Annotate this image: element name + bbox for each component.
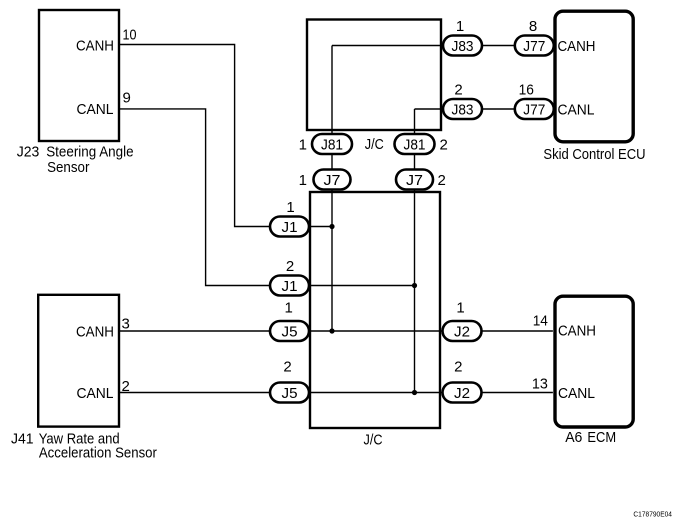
svg-text:8: 8 xyxy=(529,18,537,35)
svg-text:2: 2 xyxy=(438,172,446,189)
svg-text:J2: J2 xyxy=(454,385,470,402)
svg-text:CANL: CANL xyxy=(558,101,595,118)
svg-text:14: 14 xyxy=(533,313,548,330)
svg-text:A6: A6 xyxy=(565,429,582,446)
svg-text:J81: J81 xyxy=(321,136,343,153)
svg-text:1: 1 xyxy=(299,136,307,153)
svg-text:CANH: CANH xyxy=(558,38,596,55)
svg-text:J7: J7 xyxy=(406,172,423,189)
svg-text:J81: J81 xyxy=(404,136,426,153)
svg-text:Acceleration Sensor: Acceleration Sensor xyxy=(39,444,157,461)
svg-text:2: 2 xyxy=(283,359,291,376)
svg-text:2: 2 xyxy=(440,136,448,153)
svg-text:CANL: CANL xyxy=(77,101,114,118)
svg-text:1: 1 xyxy=(456,18,464,35)
svg-text:J2: J2 xyxy=(454,323,470,340)
svg-text:CANH: CANH xyxy=(76,324,114,341)
svg-text:J23: J23 xyxy=(17,143,40,160)
svg-text:J5: J5 xyxy=(282,385,298,402)
svg-text:J77: J77 xyxy=(523,38,545,55)
svg-text:J83: J83 xyxy=(452,38,474,55)
svg-text:CANL: CANL xyxy=(77,385,114,402)
svg-text:1: 1 xyxy=(299,172,307,189)
svg-text:1: 1 xyxy=(456,300,464,317)
svg-text:J5: J5 xyxy=(282,323,298,340)
svg-text:J7: J7 xyxy=(324,172,341,189)
svg-text:CANL: CANL xyxy=(558,385,595,402)
svg-text:3: 3 xyxy=(122,316,130,333)
svg-text:J83: J83 xyxy=(452,101,474,118)
svg-text:J77: J77 xyxy=(523,101,545,118)
svg-text:Skid Control ECU: Skid Control ECU xyxy=(543,146,645,163)
svg-text:Sensor: Sensor xyxy=(47,159,89,176)
svg-text:2: 2 xyxy=(286,258,294,275)
svg-text:J/C: J/C xyxy=(364,431,383,448)
svg-text:1: 1 xyxy=(286,199,294,216)
svg-text:10: 10 xyxy=(123,26,137,43)
svg-text:16: 16 xyxy=(519,82,534,99)
svg-text:J41: J41 xyxy=(11,431,34,448)
svg-text:9: 9 xyxy=(123,90,131,107)
svg-text:2: 2 xyxy=(122,378,130,395)
svg-text:J1: J1 xyxy=(282,278,298,295)
svg-text:CANH: CANH xyxy=(76,38,114,55)
svg-text:2: 2 xyxy=(454,82,462,99)
svg-text:CANH: CANH xyxy=(558,323,596,340)
svg-text:13: 13 xyxy=(532,375,548,392)
svg-text:ECM: ECM xyxy=(587,429,616,446)
svg-text:1: 1 xyxy=(285,300,293,317)
svg-text:J/C: J/C xyxy=(365,136,384,153)
svg-text:C178790E04: C178790E04 xyxy=(633,509,672,518)
svg-text:J1: J1 xyxy=(282,219,298,236)
svg-text:2: 2 xyxy=(454,359,462,376)
